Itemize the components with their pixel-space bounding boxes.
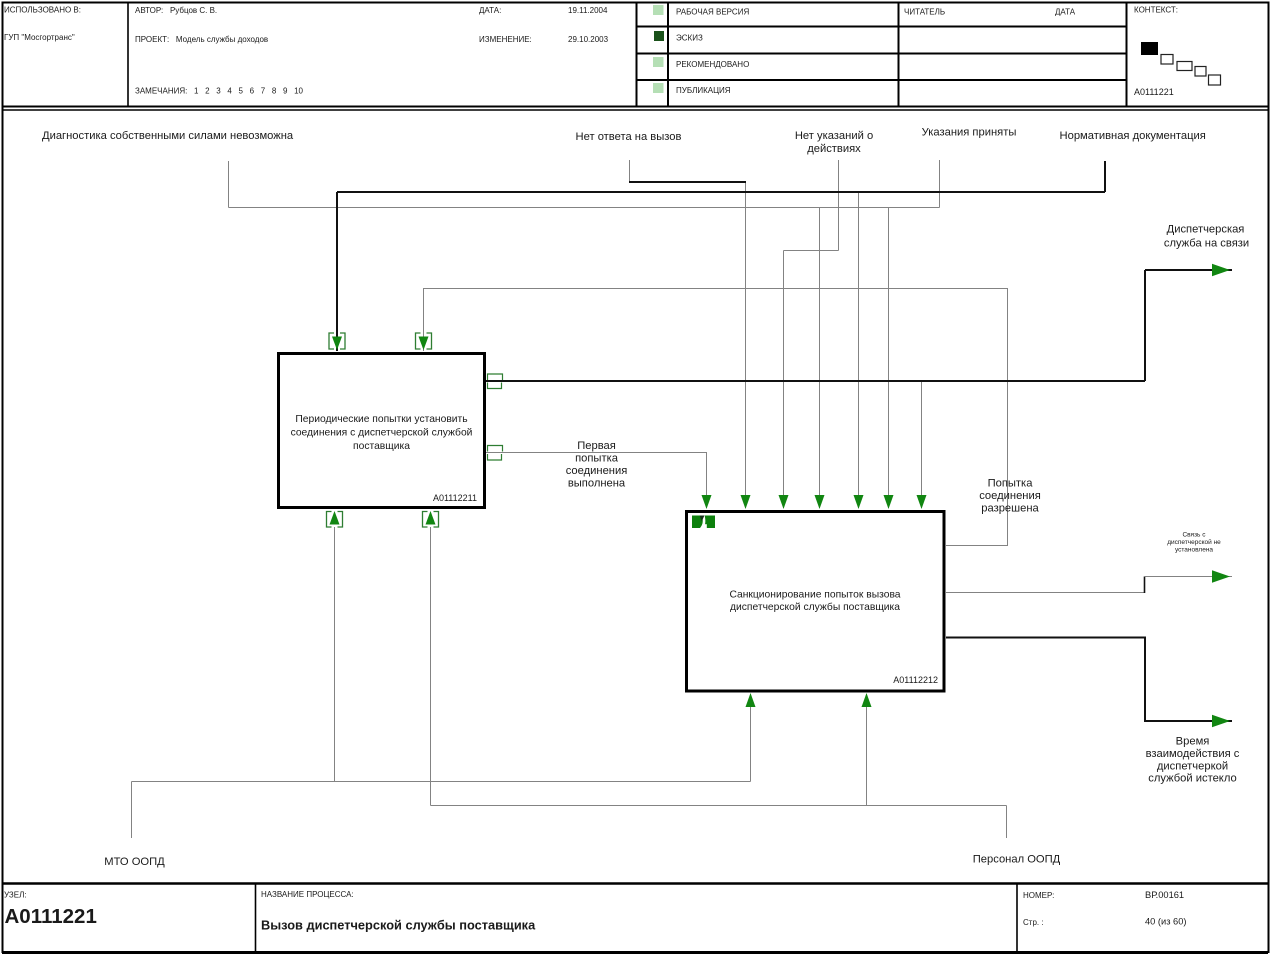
wire Связь horizontal to boundary arrow [1145,576,1233,578]
svg-text:Вызов диспетчерской службы пос: Вызов диспетчерской службы поставщика [261,918,536,933]
context icon filled square [1141,42,1158,55]
svg-text:выполнена: выполнена [568,478,626,490]
svg-text:взаимодействия с: взаимодействия с [1146,748,1240,760]
header cell divider x=898.5 [898,2,900,106]
arrowhead Время взаимодействия истекло [1212,715,1230,727]
svg-text:Периодические попытки установи: Периодические попытки установить [295,414,467,425]
box1 right output1 tunnel brackets [488,374,503,389]
checkbox ПУБЛИКАЦИЯ [653,83,664,93]
svg-text:Нормативная документация: Нормативная документация [1060,130,1206,142]
svg-text:ПРОЕКТ: Модель службы доходо: ПРОЕКТ: Модель службы доходов [135,35,268,44]
header cell divider x=128 [127,2,129,106]
checkbox ЭСКИЗ (filled) [654,31,664,41]
svg-text:ЧИТАТЕЛЬ: ЧИТАТЕЛЬ [904,8,945,17]
wire Нормативная drop vertical into box1 [336,192,338,351]
arrowhead Связь с диспетчерской не установлена [1212,570,1230,582]
wire Нет указаний label stub vertical [838,160,840,251]
svg-text:Санкционирование попыток вызов: Санкционирование попыток вызова [729,590,900,601]
box1 Периодические попытки [279,354,485,508]
header bottom border [2,106,1268,108]
svg-text:разрешена: разрешена [981,503,1039,515]
svg-text:службой истекло: службой истекло [1148,773,1236,785]
wire Нет указаний drop vertical into box2 [783,251,785,509]
svg-text:действиях: действиях [807,143,861,155]
wire Нет ответа drop vertical into box2 [745,183,747,508]
svg-text:соединения с диспетчерской слу: соединения с диспетчерской службой [291,427,473,439]
svg-text:A01112211: A01112211 [433,493,477,503]
svg-text:УЗЕЛ:: УЗЕЛ: [4,891,27,900]
wire Связь riser vertical [1144,577,1146,594]
label Время взаимодействия с диспетчеркой службой истекло [1146,736,1240,785]
wire Персонал branch up into box1 bottom [430,527,432,806]
svg-text:Нет ответа на вызов: Нет ответа на вызов [576,131,682,143]
header row line 1 [637,26,1127,28]
svg-text:ВР.00161: ВР.00161 [1145,890,1184,900]
label Связь с диспетчерской не установлена (small) [1167,532,1221,554]
footer top border [2,882,1268,884]
svg-text:АВТОР: Рубцов С. В.: АВТОР: Рубцов С. В. [135,6,217,15]
wire Нормативная branch vertical into box2 [858,193,860,508]
wire Нормативная документация label stub vertical [1104,161,1106,192]
svg-text:29.10.2003: 29.10.2003 [568,35,609,44]
box1 bottom input marker 2 at x=430 [423,512,439,528]
svg-text:ГУП "Мосгортранс": ГУП "Мосгортранс" [4,33,75,42]
wire МТО branch up into box2 bottom [750,694,752,782]
svg-text:поставщика: поставщика [353,441,410,452]
box2 top arrowheads [702,495,712,509]
svg-text:ЭСКИЗ: ЭСКИЗ [676,34,703,43]
svg-text:A0111221: A0111221 [5,905,97,928]
wire Диагностика label stub vertical [228,161,230,208]
footer divider x=255.5 [255,884,257,951]
svg-text:диспетчерской не: диспетчерской не [1167,538,1221,546]
context icon square 4 [1195,67,1206,77]
wire box1 output Первая попытка [486,453,707,509]
svg-text:ДАТА: ДАТА [1055,8,1076,17]
arrowhead Диспетчерская служба на связи [1212,264,1230,276]
checkbox РАБОЧАЯ ВЕРСИЯ [653,5,664,15]
wire box2 output Связь не установлена [946,592,1145,594]
header cell divider x=636.5 [636,2,638,106]
diagram frame top border [2,109,1268,111]
context icon square 3 [1177,62,1192,71]
svg-text:19.11.2004: 19.11.2004 [568,6,608,15]
svg-text:A01112212: A01112212 [893,675,938,685]
page bottom border thick [2,951,1268,954]
svg-text:ИЗМЕНЕНИЕ:: ИЗМЕНЕНИЕ: [479,35,532,44]
svg-text:попытка: попытка [575,453,619,465]
svg-text:соединения: соединения [979,490,1041,502]
svg-text:МТО ООПД: МТО ООПД [104,856,165,868]
checkbox РЕКОМЕНДОВАНО [653,57,664,67]
wire Нормативная документация horizontal y=192 [337,191,1105,193]
wire Попытка соединения разрешена feedback from box2 [424,289,1008,546]
wire Нет ответа horizontal y=182 [629,181,746,183]
wire branch into box2 input7 [921,382,923,508]
wire Указания приняты drop vertical into box2 [888,208,890,509]
svg-text:ИСПОЛЬЗОВАНО В:: ИСПОЛЬЗОВАНО В: [4,6,81,15]
svg-text:А0111221: А0111221 [1134,87,1174,97]
box2 Санкционирование попыток [687,512,945,692]
wire Нет указаний horizontal y=250.5 [784,250,839,252]
wire Диагностика drop vertical into box2 [819,208,821,509]
checkbox column divider x=668 [667,2,669,106]
svg-text:Стр. :: Стр. : [1023,918,1044,927]
context icon square 2 [1161,55,1173,65]
footer divider x=1017 [1016,884,1018,951]
svg-text:соединения: соединения [566,465,628,477]
context cell divider x=1126.5 [1126,2,1128,106]
svg-text:установлена: установлена [1175,547,1213,554]
svg-text:РАБОЧАЯ ВЕРСИЯ: РАБОЧАЯ ВЕРСИЯ [676,8,749,17]
wire Указания приняты label stub vertical [939,160,941,208]
box1 bottom input marker 1 at x=334 [327,512,343,528]
svg-text:40 (из 60): 40 (из 60) [1145,917,1187,927]
header row line 3 [637,79,1127,81]
header row line 2 [637,53,1127,55]
svg-text:Время: Время [1176,736,1210,748]
box1 right output2 tunnel brackets [488,446,503,461]
wire МТО ООПД label stub vertical [131,782,133,839]
svg-text:диспетчеркой: диспетчеркой [1157,761,1228,773]
box2 bottom arrowheads [746,693,756,707]
svg-text:КОНТЕКСТ:: КОНТЕКСТ: [1134,6,1178,15]
wire МТО branch up into box1 bottom [334,527,336,782]
wire Нет ответа label stub vertical [629,160,631,181]
wire Персонал ООПД label stub vertical [1006,806,1008,839]
wire Диспетчерская служба riser vertical x=1145 [1144,270,1146,381]
svg-text:Нет указаний о: Нет указаний о [795,130,873,142]
box1 top input marker 2 at x=423.5 [416,333,432,349]
svg-text:Попытка: Попытка [988,478,1034,490]
svg-text:Первая: Первая [577,440,616,452]
svg-text:Связь с: Связь с [1182,532,1206,539]
svg-text:РЕКОМЕНДОВАНО: РЕКОМЕНДОВАНО [676,60,749,69]
svg-text:Диспетчерская: Диспетчерская [1167,224,1245,236]
svg-text:диспетчерской службы поставщик: диспетчерской службы поставщика [730,601,900,613]
wire Персонал branch up into box2 bottom [866,694,868,806]
svg-text:НАЗВАНИЕ ПРОЦЕССА:: НАЗВАНИЕ ПРОЦЕССА: [261,890,354,899]
wire box1 output Диспетчерская служба horizontal y=381 [486,380,1145,382]
box1 top input marker 1 (bracket + arrowhead) at x=337.5 [329,333,345,349]
wire box2 output Время истекло [946,638,1232,722]
svg-text:служба на связи: служба на связи [1164,238,1249,250]
svg-text:НОМЕР:: НОМЕР: [1023,891,1054,900]
wire Диагностика horizontal y=207.5 [229,207,940,209]
wire МТО ООПД horizontal y=781.5 [132,781,751,783]
svg-text:ПУБЛИКАЦИЯ: ПУБЛИКАЦИЯ [676,86,731,95]
svg-text:Диагностика собственными силам: Диагностика собственными силами невозмож… [42,130,294,142]
wire Персонал ООПД horizontal y=805.5 [431,805,1007,807]
svg-text:ДАТА:: ДАТА: [479,6,501,15]
svg-text:ЗАМЕЧАНИЯ: 1 2 3 4 5: ЗАМЕЧАНИЯ: 1 2 3 4 5 6 7 8 9 10 [135,87,304,96]
context icon square 5 [1209,75,1221,85]
box2 corner icon [692,516,715,529]
svg-text:Персонал ООПД: Персонал ООПД [973,854,1061,866]
svg-text:Указания приняты: Указания приняты [922,127,1017,139]
wire Диспетчерская служба horizontal to boundary arrow [1145,269,1232,271]
